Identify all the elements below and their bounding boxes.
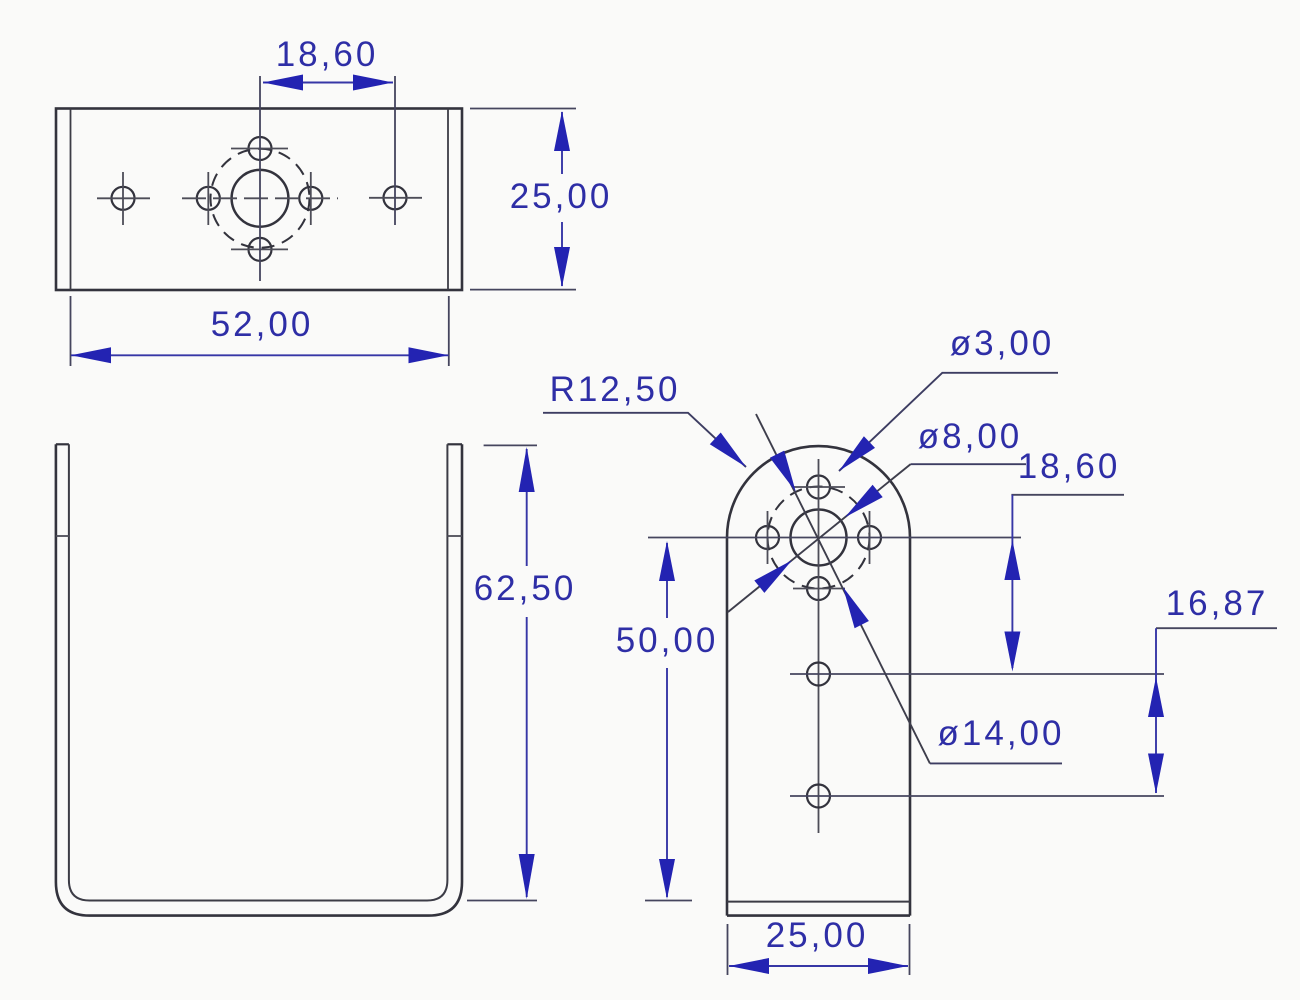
top view plate outline xyxy=(56,109,462,291)
dim 50,00: bottom extension xyxy=(645,900,692,902)
side hub small hole S xyxy=(807,577,830,600)
label o3,00: arrow xyxy=(839,436,875,471)
hole B crosshair + extension line xyxy=(790,795,1164,797)
dim 62,50: dimension line xyxy=(526,449,528,566)
dim 62,50: down arrow xyxy=(519,854,535,899)
dim 25,00 right: dimension line xyxy=(561,112,563,174)
side hub small hole W xyxy=(756,526,779,549)
svg-text:16,87: 16,87 xyxy=(1166,584,1269,623)
svg-text:R12,50: R12,50 xyxy=(550,370,681,409)
label R12,50: arrow xyxy=(710,433,746,468)
front view outer contour xyxy=(56,444,462,915)
dim 62,50: extension lines xyxy=(484,444,537,446)
dim 25,00 bottom: extension lines xyxy=(727,924,729,975)
hub horizontal centerline xyxy=(182,197,338,199)
side hub horizontal centerline + 50,00/18,60 extensions xyxy=(648,537,1021,539)
label o3,00: underline + leader xyxy=(839,373,1058,471)
dim 18,60 top: left arrow xyxy=(263,75,303,91)
left hole crosshair xyxy=(97,197,150,199)
label o8,00: diameter leader through hub xyxy=(728,464,911,612)
side hub vertical centerline xyxy=(818,459,820,833)
dim 25,00 bottom: right arrow xyxy=(868,958,908,974)
dim 18,60 top: dimension line xyxy=(263,82,393,84)
front view left bend tick xyxy=(56,535,69,537)
hub small hole E xyxy=(299,187,322,210)
dim 18,60 side: down arrow xyxy=(1004,632,1020,672)
svg-text:25,00: 25,00 xyxy=(510,177,613,216)
front view right bend tick xyxy=(447,535,462,537)
hole A crosshair + extension line xyxy=(790,673,1164,675)
side view bottom edge xyxy=(727,914,910,917)
svg-text:62,50: 62,50 xyxy=(474,569,577,608)
top view left flange inner line xyxy=(70,109,72,291)
lower hole B xyxy=(807,785,830,808)
svg-text:ø3,00: ø3,00 xyxy=(950,324,1055,363)
dim 25,00 bottom: dimension line xyxy=(729,965,908,967)
hub vertical centerline / extension to 18,60 dim xyxy=(259,76,261,281)
dim 18,60 side: up arrow xyxy=(1004,540,1020,580)
label o14,00: lower arrow xyxy=(843,587,869,628)
dim 16,87: underline + riser xyxy=(1156,627,1277,629)
svg-text:18,60: 18,60 xyxy=(1018,447,1121,486)
dim 52,00 bottom: right arrow xyxy=(409,347,449,363)
label o8,00: upper arrow xyxy=(845,485,883,518)
label o14,00: diameter leader through hub xyxy=(756,414,930,763)
right mounting hole xyxy=(384,186,407,209)
label o14,00: underline xyxy=(930,762,1062,764)
front view inner contour xyxy=(69,444,448,900)
right hole crosshair + extension to 18,60 dim xyxy=(369,197,422,199)
dim 52,00 bottom: left arrow xyxy=(71,347,111,363)
dim 16,87: up arrow xyxy=(1148,677,1164,717)
hub small hole W xyxy=(197,187,220,210)
svg-text:ø14,00: ø14,00 xyxy=(938,714,1065,753)
svg-text:52,00: 52,00 xyxy=(211,305,314,344)
dim 52,00 bottom: dimension line xyxy=(71,354,449,356)
hub small hole S xyxy=(249,238,272,261)
lower hole A xyxy=(807,663,830,686)
dim 62,50: up arrow xyxy=(519,447,535,492)
dim 18,60 side: underline + riser xyxy=(1011,494,1124,496)
dim 50,00: up arrow xyxy=(659,541,675,581)
dim 50,00: dimension line xyxy=(666,543,668,618)
hub small hole N xyxy=(249,137,272,160)
dim 18,60 top: right arrow xyxy=(353,75,393,91)
label o8,00: lower arrow xyxy=(754,560,792,593)
front view wall top caps xyxy=(56,443,69,445)
label R12,50: underline + leader xyxy=(543,413,746,467)
dim 25,00 bottom: left arrow xyxy=(729,958,769,974)
hub center hole (output shaft) xyxy=(232,170,289,227)
dim 25,00 right: up arrow xyxy=(554,111,570,151)
side view plate top line xyxy=(727,901,910,903)
top view right flange inner line xyxy=(447,109,449,291)
hub bolt circle (dashed) xyxy=(211,149,310,248)
label o14,00: upper arrow xyxy=(770,451,796,492)
label o8,00: underline xyxy=(911,463,1027,465)
side hub center hole xyxy=(791,510,847,566)
side view outline with round top xyxy=(727,446,910,916)
dim 50,00: down arrow xyxy=(659,859,675,899)
left mounting hole xyxy=(112,187,135,210)
dim 25,00 right: down arrow xyxy=(554,247,570,287)
side hub small hole E xyxy=(858,526,881,549)
side hub bolt circle (dashed) xyxy=(768,487,870,589)
dim 52,00 bottom: extension lines xyxy=(70,296,72,366)
dim 16,87: down arrow xyxy=(1148,754,1164,794)
svg-text:18,60: 18,60 xyxy=(276,35,379,74)
svg-text:ø8,00: ø8,00 xyxy=(918,417,1023,456)
svg-text:25,00: 25,00 xyxy=(766,916,869,955)
side hub small hole N xyxy=(807,476,830,499)
dim 25,00 right: extension lines xyxy=(470,108,576,110)
svg-text:50,00: 50,00 xyxy=(616,621,719,660)
